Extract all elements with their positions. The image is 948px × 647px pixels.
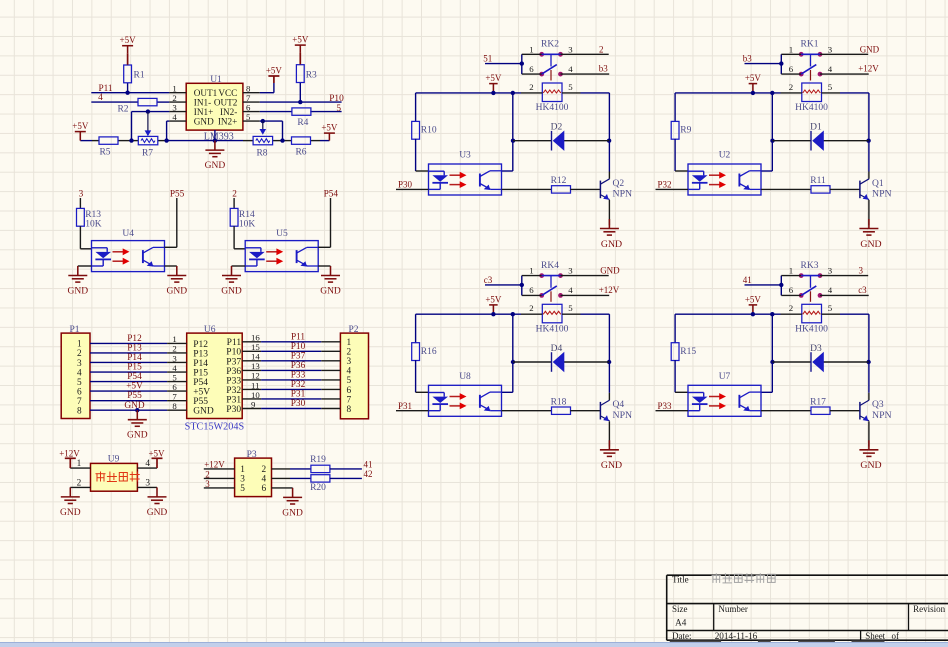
svg-text:5: 5 (568, 82, 573, 92)
svg-text:b3: b3 (599, 64, 609, 74)
svg-text:3: 3 (568, 44, 573, 54)
svg-text:R1: R1 (134, 71, 145, 81)
svg-text:P14: P14 (127, 353, 142, 363)
svg-text:6: 6 (529, 64, 534, 74)
svg-text:GND: GND (282, 508, 303, 518)
svg-text:R2: R2 (117, 105, 128, 115)
svg-text:6: 6 (347, 386, 352, 396)
svg-text:U5: U5 (276, 229, 288, 239)
svg-text:+12V: +12V (59, 448, 80, 458)
svg-text:41: 41 (743, 275, 752, 285)
svg-text:6: 6 (262, 484, 267, 494)
svg-text:P55: P55 (193, 397, 208, 407)
svg-text:Sheet: Sheet (865, 631, 885, 641)
svg-text:12: 12 (251, 371, 260, 381)
svg-text:D2: D2 (551, 123, 563, 133)
svg-text:GND: GND (60, 508, 81, 518)
svg-text:2: 2 (172, 344, 176, 354)
svg-text:+5V: +5V (193, 388, 210, 398)
svg-text:HK4100: HK4100 (536, 324, 569, 334)
svg-text:14: 14 (251, 352, 260, 362)
svg-text:3: 3 (205, 479, 210, 489)
svg-text:GND: GND (860, 44, 880, 54)
svg-text:6: 6 (529, 285, 534, 295)
svg-text:P31: P31 (226, 395, 241, 405)
svg-text:4: 4 (828, 64, 833, 74)
svg-text:GND: GND (601, 460, 622, 471)
svg-text:RK3: RK3 (801, 261, 819, 271)
svg-text:+5V: +5V (321, 123, 338, 133)
svg-text:GND: GND (194, 116, 214, 126)
svg-text:P30: P30 (398, 180, 413, 190)
svg-text:D1: D1 (810, 123, 822, 133)
svg-text:P33: P33 (226, 376, 241, 386)
svg-text:5: 5 (77, 378, 82, 388)
svg-text:GND: GND (320, 287, 341, 297)
svg-text:D4: D4 (551, 344, 563, 354)
svg-text:2: 2 (347, 348, 352, 358)
svg-text:6: 6 (77, 387, 82, 397)
svg-text:P54: P54 (127, 372, 142, 382)
svg-text:P11: P11 (291, 332, 305, 342)
svg-text:+5V: +5V (126, 382, 143, 392)
svg-text:1: 1 (347, 338, 352, 348)
svg-text:R12: R12 (551, 176, 567, 186)
svg-text:P15: P15 (193, 368, 208, 378)
svg-text:+5V: +5V (485, 294, 502, 304)
svg-text:4: 4 (262, 475, 267, 485)
svg-text:8: 8 (347, 405, 352, 415)
svg-text:P11: P11 (227, 338, 242, 348)
svg-text:R17: R17 (810, 397, 826, 407)
svg-text:3: 3 (568, 266, 573, 276)
svg-text:GND: GND (147, 508, 168, 518)
svg-text:4: 4 (568, 64, 573, 74)
svg-text:RK2: RK2 (541, 40, 559, 50)
svg-text:Q2: Q2 (613, 179, 625, 189)
svg-text:6: 6 (789, 285, 794, 295)
svg-text:16: 16 (251, 333, 260, 343)
svg-text:11: 11 (251, 380, 259, 390)
svg-text:2014-11-16: 2014-11-16 (715, 631, 758, 641)
svg-text:P33: P33 (291, 371, 306, 381)
svg-text:5: 5 (347, 376, 352, 386)
svg-text:c3: c3 (484, 275, 493, 285)
svg-text:GND: GND (601, 239, 622, 250)
svg-text:8: 8 (172, 401, 177, 411)
svg-text:5: 5 (828, 82, 833, 92)
svg-text:2: 2 (262, 465, 267, 475)
svg-text:HK4100: HK4100 (536, 103, 569, 113)
svg-text:5: 5 (828, 303, 833, 313)
svg-text:P30: P30 (291, 399, 306, 409)
svg-text:10K: 10K (85, 220, 102, 230)
svg-text:+5V: +5V (745, 294, 762, 304)
svg-text:2: 2 (529, 303, 533, 313)
svg-text:4: 4 (98, 93, 103, 103)
svg-text:GND: GND (124, 401, 144, 411)
svg-text:STC15W204S: STC15W204S (185, 421, 245, 432)
svg-text:+12V: +12V (858, 64, 879, 74)
svg-text:+12V: +12V (599, 285, 620, 295)
svg-text:R6: R6 (295, 148, 306, 158)
svg-text:5: 5 (568, 303, 573, 313)
svg-text:P10: P10 (226, 348, 241, 358)
svg-text:R14: R14 (239, 210, 255, 220)
svg-text:P12: P12 (193, 340, 208, 350)
svg-text:4: 4 (145, 459, 150, 469)
svg-text:R8: R8 (256, 149, 267, 159)
svg-text:R4: R4 (297, 118, 308, 128)
svg-text:GND: GND (860, 239, 881, 250)
svg-text:P10: P10 (291, 342, 306, 352)
svg-text:R15: R15 (680, 347, 696, 357)
svg-text:13: 13 (251, 361, 260, 371)
svg-text:10: 10 (251, 390, 260, 400)
svg-text:5: 5 (240, 484, 245, 494)
svg-text:c3: c3 (858, 285, 867, 295)
svg-text:GND: GND (127, 431, 148, 441)
svg-text:4: 4 (828, 285, 833, 295)
svg-text:P13: P13 (193, 349, 208, 359)
svg-text:R11: R11 (810, 176, 826, 186)
svg-text:51: 51 (483, 54, 492, 64)
svg-text:P37: P37 (226, 357, 241, 367)
svg-text:42: 42 (364, 469, 373, 479)
svg-text:+5V: +5V (72, 121, 89, 131)
svg-text:R19: R19 (310, 455, 326, 465)
svg-text:P37: P37 (291, 351, 306, 361)
svg-text:P10: P10 (329, 94, 344, 104)
svg-text:3: 3 (859, 266, 864, 276)
svg-text:P32: P32 (291, 380, 306, 390)
svg-text:GND: GND (193, 407, 214, 417)
svg-text:R20: R20 (310, 483, 326, 493)
svg-text:3: 3 (828, 44, 833, 54)
svg-text:R16: R16 (421, 347, 437, 357)
svg-text:R10: R10 (421, 126, 437, 136)
svg-text:9: 9 (251, 399, 256, 409)
svg-text:2: 2 (77, 349, 82, 359)
svg-text:1: 1 (789, 44, 793, 54)
svg-text:P32: P32 (226, 386, 241, 396)
svg-text:41: 41 (364, 459, 373, 469)
svg-text:4: 4 (77, 368, 82, 378)
svg-text:3: 3 (145, 479, 150, 489)
svg-text:P13: P13 (127, 344, 142, 354)
svg-text:P31: P31 (398, 401, 412, 411)
svg-text:P2: P2 (348, 325, 358, 335)
svg-text:HK4100: HK4100 (795, 103, 828, 113)
svg-text:1: 1 (77, 459, 82, 469)
svg-text:7: 7 (172, 391, 177, 401)
svg-text:+5V: +5V (292, 35, 309, 45)
svg-text:4: 4 (347, 367, 352, 377)
svg-text:P14: P14 (193, 359, 208, 369)
svg-text:GND: GND (167, 287, 188, 297)
svg-text:1: 1 (529, 266, 533, 276)
svg-text:1: 1 (172, 334, 176, 344)
svg-text:+5V: +5V (120, 35, 137, 45)
svg-text:LM393: LM393 (204, 131, 234, 142)
svg-text:2: 2 (172, 93, 176, 103)
svg-text:8: 8 (77, 406, 82, 416)
svg-text:P33: P33 (657, 401, 672, 411)
svg-text:3: 3 (172, 102, 177, 112)
svg-text:P32: P32 (657, 180, 671, 190)
svg-text:3: 3 (347, 357, 352, 367)
svg-text:RK4: RK4 (541, 261, 559, 271)
svg-text:P12: P12 (127, 334, 142, 344)
svg-text:6: 6 (172, 382, 177, 392)
svg-text:3: 3 (77, 359, 82, 369)
svg-text:GND: GND (600, 266, 620, 276)
svg-text:5: 5 (172, 372, 177, 382)
svg-text:U3: U3 (459, 151, 471, 161)
svg-text:10K: 10K (239, 220, 256, 230)
svg-text:4: 4 (568, 285, 573, 295)
svg-text:Date:: Date: (672, 631, 692, 641)
svg-text:P1: P1 (69, 325, 79, 335)
svg-text:7: 7 (77, 397, 82, 407)
svg-text:Size: Size (672, 604, 688, 614)
svg-text:GND: GND (205, 161, 226, 171)
svg-text:U2: U2 (719, 151, 731, 161)
svg-text:1: 1 (77, 340, 82, 350)
svg-text:U1: U1 (210, 75, 222, 85)
svg-text:P55: P55 (127, 391, 142, 401)
svg-text:Q3: Q3 (872, 400, 884, 410)
svg-text:3: 3 (240, 475, 245, 485)
svg-text:+5V: +5V (148, 448, 165, 458)
svg-text:HK4100: HK4100 (795, 324, 828, 334)
svg-text:+5V: +5V (266, 65, 283, 75)
svg-text:Title: Title (672, 575, 689, 585)
svg-text:Revision: Revision (913, 604, 946, 614)
svg-text:D3: D3 (810, 344, 822, 354)
svg-text:1: 1 (529, 44, 533, 54)
svg-text:Q4: Q4 (613, 400, 625, 410)
svg-text:P36: P36 (226, 367, 241, 377)
svg-text:3: 3 (172, 353, 177, 363)
svg-text:2: 2 (599, 44, 604, 54)
svg-text:7: 7 (347, 395, 352, 405)
svg-text:of: of (892, 631, 900, 641)
svg-text:6: 6 (246, 102, 251, 112)
svg-text:U9: U9 (108, 454, 120, 464)
svg-text:NPN: NPN (872, 410, 892, 421)
svg-text:5: 5 (246, 112, 251, 122)
svg-text:NPN: NPN (613, 189, 633, 200)
svg-text:1: 1 (240, 465, 245, 475)
svg-text:2: 2 (205, 470, 210, 480)
svg-text:2: 2 (529, 82, 533, 92)
svg-text:2: 2 (789, 82, 793, 92)
svg-text:A4: A4 (675, 617, 687, 627)
svg-text:2: 2 (789, 303, 793, 313)
svg-text:Q1: Q1 (872, 179, 884, 189)
svg-text:P30: P30 (226, 405, 241, 415)
svg-text:1: 1 (789, 266, 793, 276)
svg-text:NPN: NPN (872, 189, 892, 200)
svg-text:IN2+: IN2+ (218, 116, 237, 126)
svg-text:15: 15 (251, 342, 260, 352)
svg-text:+12V: +12V (204, 459, 225, 469)
svg-text:U7: U7 (719, 372, 731, 382)
svg-text:5: 5 (336, 104, 341, 114)
svg-text:R13: R13 (85, 210, 101, 220)
svg-text:RK1: RK1 (801, 40, 819, 50)
svg-text:R7: R7 (142, 149, 153, 159)
svg-text:2: 2 (77, 479, 82, 489)
svg-text:+5V: +5V (485, 73, 502, 83)
svg-text:3: 3 (828, 266, 833, 276)
svg-text:+5V: +5V (745, 73, 762, 83)
svg-text:GND: GND (68, 287, 89, 297)
svg-text:P15: P15 (127, 363, 142, 373)
svg-text:P54: P54 (193, 378, 208, 388)
svg-text:R3: R3 (306, 71, 317, 81)
svg-text:U4: U4 (122, 229, 134, 239)
svg-text:Number: Number (718, 604, 748, 614)
svg-text:GND: GND (221, 287, 242, 297)
svg-text:4: 4 (172, 363, 177, 373)
svg-text:R9: R9 (680, 126, 691, 136)
svg-text:b3: b3 (743, 54, 753, 64)
svg-text:7: 7 (246, 93, 251, 103)
svg-text:R5: R5 (99, 148, 110, 158)
svg-text:U6: U6 (204, 325, 216, 335)
svg-text:NPN: NPN (613, 410, 633, 421)
svg-text:4: 4 (172, 112, 177, 122)
svg-text:P36: P36 (291, 361, 306, 371)
svg-text:P3: P3 (247, 450, 257, 460)
svg-text:U8: U8 (459, 372, 471, 382)
svg-text:P31: P31 (291, 390, 306, 400)
svg-text:6: 6 (789, 64, 794, 74)
svg-text:GND: GND (860, 460, 881, 471)
svg-text:R18: R18 (551, 397, 567, 407)
